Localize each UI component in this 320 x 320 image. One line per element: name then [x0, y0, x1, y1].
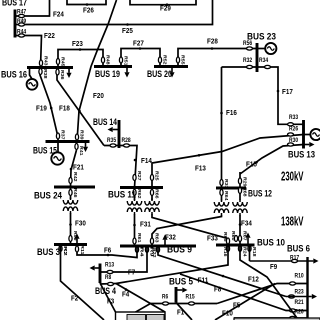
svg-text:R65: R65 [222, 232, 228, 242]
svg-text:F3: F3 [107, 299, 114, 306]
svg-text:BUS 15: BUS 15 [33, 145, 57, 156]
svg-text:F21: F21 [73, 165, 84, 172]
svg-text:R15: R15 [186, 294, 196, 300]
svg-text:F15: F15 [246, 162, 257, 169]
svg-text:R62: R62 [136, 189, 142, 199]
svg-text:BUS 20: BUS 20 [147, 69, 172, 80]
svg-text:R39: R39 [79, 130, 85, 140]
svg-text:R13: R13 [105, 262, 115, 268]
svg-text:R2: R2 [62, 246, 68, 256]
svg-text:F26: F26 [83, 8, 94, 15]
svg-text:R46: R46 [72, 188, 78, 198]
svg-text:F18: F18 [59, 106, 70, 113]
svg-text:F7: F7 [128, 270, 135, 277]
svg-text:R36: R36 [59, 70, 65, 80]
svg-text:F28: F28 [207, 39, 218, 46]
svg-text:R67: R67 [242, 231, 248, 241]
svg-text:F14: F14 [141, 158, 152, 165]
svg-text:F17: F17 [282, 89, 293, 96]
svg-text:F2: F2 [71, 296, 78, 303]
svg-text:R35: R35 [107, 138, 117, 144]
svg-text:BUS 14: BUS 14 [93, 117, 117, 128]
svg-text:R17: R17 [290, 255, 300, 261]
svg-text:R66: R66 [154, 189, 160, 199]
svg-text:F10: F10 [222, 311, 233, 318]
svg-text:R31: R31 [223, 179, 229, 189]
svg-text:BUS 5: BUS 5 [169, 276, 194, 287]
svg-text:F23: F23 [72, 41, 83, 48]
svg-text:R8: R8 [105, 275, 112, 281]
svg-text:R34: R34 [259, 58, 269, 64]
svg-text:R47: R47 [17, 9, 27, 15]
svg-text:BUS 13: BUS 13 [288, 150, 315, 161]
svg-text:F34: F34 [241, 221, 252, 228]
svg-text:F16: F16 [226, 110, 237, 117]
svg-text:R60: R60 [230, 231, 236, 241]
svg-text:F31: F31 [140, 222, 151, 229]
svg-text:R26: R26 [289, 126, 299, 132]
svg-text:F27: F27 [133, 41, 144, 48]
svg-text:F32: F32 [165, 235, 176, 242]
svg-text:R64: R64 [223, 191, 229, 201]
svg-text:R33: R33 [289, 115, 299, 121]
svg-text:230kV: 230kV [281, 169, 304, 184]
svg-text:R55: R55 [180, 55, 186, 65]
svg-text:R25: R25 [154, 171, 160, 181]
svg-text:BUS 17: BUS 17 [2, 0, 27, 9]
svg-text:R23: R23 [295, 289, 305, 295]
svg-text:R51: R51 [123, 56, 129, 66]
svg-text:R18: R18 [251, 247, 257, 257]
svg-text:F1: F1 [177, 310, 184, 317]
svg-text:R43: R43 [43, 56, 49, 66]
svg-text:R24: R24 [242, 247, 248, 257]
svg-text:F25: F25 [122, 28, 133, 35]
svg-text:R68: R68 [242, 187, 248, 197]
svg-text:R10: R10 [295, 273, 305, 279]
svg-text:R22: R22 [151, 248, 157, 258]
svg-text:F8: F8 [214, 287, 221, 294]
svg-text:R41: R41 [78, 146, 84, 156]
svg-text:BUS 9: BUS 9 [167, 244, 192, 255]
svg-text:R21: R21 [295, 300, 305, 306]
svg-text:R38: R38 [42, 69, 48, 79]
svg-text:F19: F19 [36, 106, 47, 113]
svg-text:R52: R52 [162, 55, 168, 65]
svg-text:R37: R37 [60, 130, 66, 140]
svg-text:F5: F5 [233, 303, 240, 310]
svg-text:F22: F22 [44, 33, 55, 40]
svg-text:R45: R45 [60, 57, 66, 67]
svg-text:R20: R20 [295, 309, 305, 315]
svg-text:R29: R29 [242, 177, 248, 187]
svg-text:138kV: 138kV [281, 214, 304, 229]
svg-text:R16: R16 [222, 247, 228, 257]
svg-text:R59: R59 [72, 231, 78, 241]
svg-text:BUS 6: BUS 6 [287, 244, 310, 255]
svg-text:F4: F4 [122, 292, 129, 299]
svg-text:BUS 12: BUS 12 [248, 188, 272, 199]
svg-text:R49: R49 [17, 19, 27, 25]
svg-text:R28: R28 [122, 138, 132, 144]
svg-text:R27: R27 [136, 171, 142, 181]
svg-text:BUS 24: BUS 24 [34, 190, 63, 201]
svg-text:R42: R42 [72, 172, 78, 182]
svg-text:R63: R63 [154, 233, 160, 243]
svg-text:F6: F6 [104, 248, 111, 255]
svg-text:BUS 19: BUS 19 [95, 69, 120, 80]
svg-text:R48: R48 [105, 55, 111, 65]
svg-text:BUS 11: BUS 11 [108, 190, 137, 201]
svg-text:R32: R32 [243, 58, 253, 64]
svg-text:F24: F24 [53, 12, 64, 19]
svg-text:R30: R30 [289, 138, 299, 144]
svg-text:BUS 16: BUS 16 [1, 69, 27, 80]
svg-text:R61: R61 [136, 233, 142, 243]
svg-text:F12: F12 [248, 277, 259, 284]
svg-text:R6: R6 [162, 294, 169, 300]
svg-text:R11: R11 [79, 245, 85, 255]
svg-text:BUS 4: BUS 4 [95, 286, 116, 297]
svg-text:R56: R56 [243, 41, 253, 47]
svg-text:F9: F9 [270, 264, 277, 271]
svg-text:BUS 3: BUS 3 [37, 247, 60, 258]
svg-text:F29: F29 [160, 6, 171, 13]
svg-text:F33: F33 [207, 236, 218, 243]
svg-text:F11: F11 [198, 278, 209, 285]
svg-text:F30: F30 [75, 221, 86, 228]
svg-text:R44: R44 [17, 29, 27, 35]
svg-text:BUS 10: BUS 10 [257, 237, 285, 248]
svg-text:R4: R4 [139, 247, 145, 257]
svg-text:F13: F13 [195, 166, 206, 173]
svg-text:F20: F20 [93, 93, 104, 100]
